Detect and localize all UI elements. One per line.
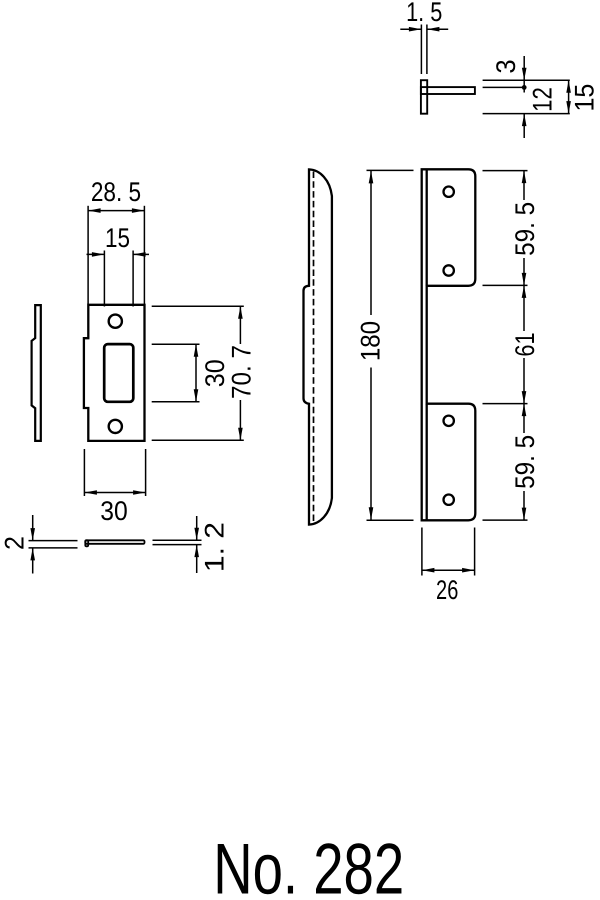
svg-text:28. 5: 28. 5 bbox=[91, 177, 141, 207]
extension line plate bottom right bbox=[152, 439, 244, 441]
extension line hole top right bbox=[152, 343, 200, 345]
arrow 1.5 left bbox=[409, 27, 422, 32]
arrow 30 bottom left bbox=[84, 490, 97, 495]
top screw hole bbox=[109, 315, 122, 328]
bottom screw hole bbox=[109, 420, 122, 433]
title No. 282 bbox=[213, 830, 404, 900]
angle profile vertical leg bbox=[421, 80, 427, 114]
arrow 30 down bbox=[194, 389, 199, 402]
arrow 180 up bbox=[369, 171, 374, 184]
extension line 180 bottom bbox=[367, 519, 414, 521]
arrow 1.5 right bbox=[427, 27, 440, 32]
dimension line 180 lower segment bbox=[370, 368, 372, 520]
FIGURE B : strike plate, left group bbox=[0, 177, 257, 574]
arrow 28.5 left bbox=[88, 208, 101, 213]
extension line chain wing1 bottom bbox=[483, 284, 528, 286]
wing screw hole 3 bbox=[444, 416, 454, 426]
arrow 15 up bbox=[566, 80, 571, 93]
dimension line 3 with down arrow bbox=[523, 56, 525, 93]
dimension line 30 bottom bbox=[84, 492, 145, 494]
dimension line 180 upper segment bbox=[370, 171, 372, 315]
dimension line 61 segment a bbox=[523, 285, 525, 331]
dimension line 59.5 bottom segment b bbox=[523, 491, 525, 520]
side view hidden dashed line bbox=[313, 172, 315, 523]
arrow 70.7 up bbox=[238, 306, 243, 319]
arrow 59.5 top up bbox=[522, 171, 527, 184]
extension line 15 left bbox=[103, 251, 105, 307]
terminator dot 3/12 bbox=[522, 85, 527, 90]
dimension line 12 with up arrow bbox=[523, 114, 525, 138]
arrow 15 pointing left bbox=[133, 252, 146, 257]
wing screw hole 4 bbox=[444, 495, 454, 505]
angle profile horizontal leg bbox=[421, 87, 475, 94]
dimension line 70.7 lower segment bbox=[239, 400, 241, 440]
extension line right of 1.5 bbox=[426, 25, 428, 75]
arrow 30 up bbox=[194, 344, 199, 357]
svg-text:70. 7: 70. 7 bbox=[227, 345, 257, 399]
svg-text:1. 5: 1. 5 bbox=[406, 0, 442, 27]
svg-text:26: 26 bbox=[436, 575, 458, 605]
dimension line 61 segment b bbox=[523, 358, 525, 404]
dimension line 2 upper segment bbox=[32, 515, 34, 541]
extension line 1.2 top bbox=[153, 539, 202, 541]
svg-text:30: 30 bbox=[200, 359, 230, 387]
wing screw hole 2 bbox=[444, 265, 454, 275]
svg-text:61: 61 bbox=[510, 332, 540, 356]
arrow 30 bottom right bbox=[133, 490, 146, 495]
arrow 61 down bbox=[522, 391, 527, 404]
svg-text:12: 12 bbox=[528, 87, 558, 112]
side view outline bbox=[304, 169, 332, 524]
svg-text:No. 282: No. 282 bbox=[213, 830, 404, 900]
svg-text:180: 180 bbox=[356, 321, 386, 361]
dimension line 59.5 top segment a bbox=[523, 171, 525, 200]
arrow 180 down bbox=[369, 507, 374, 520]
dimension line 1.5 right segment bbox=[427, 28, 448, 30]
svg-text:30: 30 bbox=[100, 496, 128, 526]
extension line at profile bottom (y 113.6) bbox=[483, 113, 570, 115]
arrow 59.5 bottom down bbox=[522, 508, 527, 521]
extension line plate top right bbox=[152, 305, 244, 307]
arrow 15 pointing right bbox=[92, 252, 105, 257]
arrow 26 right bbox=[462, 568, 475, 573]
dimension line 28.5 bbox=[88, 210, 144, 212]
dimension line 15 bbox=[568, 80, 570, 113]
svg-text:1. 2: 1. 2 bbox=[200, 522, 230, 572]
extension line at profile top (y 80.3) bbox=[483, 79, 570, 81]
bottom view plate strip bbox=[85, 540, 144, 544]
front view plate outline with lip bbox=[84, 305, 145, 441]
side view strip with lip bulge bbox=[32, 305, 41, 441]
dimension line 59.5 bottom segment a bbox=[523, 404, 525, 433]
latch rectangular hole bbox=[104, 344, 133, 402]
extension line left of 1.5 bbox=[420, 25, 422, 75]
extension line 2 top bbox=[29, 540, 78, 542]
arrow 59.5 top down bbox=[522, 273, 527, 286]
arrow 70.7 down bbox=[238, 428, 243, 441]
extension line 26 left bbox=[421, 528, 423, 576]
svg-text:59. 5: 59. 5 bbox=[510, 435, 540, 489]
dimension line 1.2 lower segment bbox=[196, 545, 198, 573]
extension line 28.5 left bbox=[87, 206, 89, 304]
extension line 180 top bbox=[367, 169, 414, 171]
extension line 28.5 right bbox=[143, 206, 145, 304]
dimension line 15 right outside segment bbox=[133, 253, 149, 255]
arrow 15 down bbox=[566, 101, 571, 114]
arrow 61 up bbox=[522, 285, 527, 298]
extension line 30 bottom left bbox=[83, 449, 85, 496]
extension line 30 bottom right bbox=[145, 449, 147, 496]
bend line upper segment bbox=[426, 169, 428, 285]
front view outline with two wings bbox=[422, 169, 476, 520]
extension line chain top bbox=[483, 170, 528, 172]
FIGURE A : angle profile section, top right bbox=[400, 0, 599, 138]
dimension line 26 bbox=[422, 569, 475, 571]
dimension line 59.5 top segment b bbox=[523, 258, 525, 285]
arrow 26 left bbox=[422, 568, 435, 573]
dimension line 1.5 left segment bbox=[400, 28, 421, 30]
extension line chain bottom bbox=[483, 519, 528, 521]
extension line hole bottom right bbox=[152, 401, 200, 403]
dimension line 2 lower segment bbox=[32, 548, 34, 574]
bottom view lip end bbox=[85, 540, 88, 546]
extension line chain wing2 top bbox=[483, 403, 528, 405]
bend line lower segment bbox=[426, 404, 428, 521]
dimension line 1.2 upper segment bbox=[196, 516, 198, 540]
extension line 15 right bbox=[132, 251, 134, 307]
extension line 26 right bbox=[474, 528, 476, 576]
wing screw hole 1 bbox=[444, 187, 454, 197]
arrow 3 down bbox=[522, 68, 527, 81]
arrow 12 up bbox=[522, 114, 527, 127]
extension line 2 bottom bbox=[29, 547, 78, 549]
extension line at leg top (y 87.4) bbox=[483, 86, 525, 88]
arrow 1.2 up bbox=[194, 545, 199, 558]
arrow 1.2 down bbox=[194, 528, 199, 541]
dimension line 70.7 upper segment bbox=[239, 306, 241, 344]
svg-text:3: 3 bbox=[491, 59, 521, 73]
svg-text:15: 15 bbox=[105, 223, 130, 253]
arrow 28.5 right bbox=[132, 208, 145, 213]
FIGURE C : long armor front plate, right group bbox=[304, 169, 541, 605]
dimension line 15 left outside segment bbox=[87, 253, 105, 255]
arrow 59.5 bottom up bbox=[522, 404, 527, 417]
dimension line 30 vertical bbox=[195, 344, 197, 402]
svg-text:2: 2 bbox=[0, 536, 30, 550]
arrow 2 down bbox=[30, 528, 35, 541]
extension line 1.2 bottom bbox=[153, 544, 202, 546]
svg-text:15: 15 bbox=[570, 84, 600, 112]
arrow 2 up bbox=[30, 548, 35, 561]
svg-text:59. 5: 59. 5 bbox=[510, 202, 540, 256]
